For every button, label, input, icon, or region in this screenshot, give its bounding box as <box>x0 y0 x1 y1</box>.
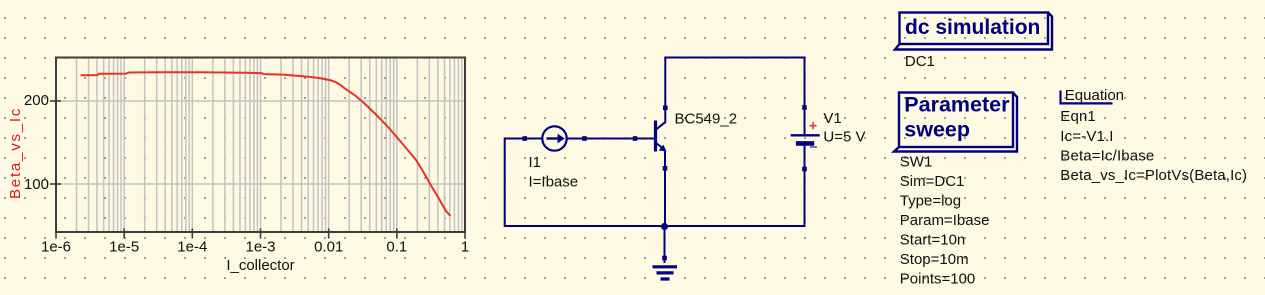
y axis tick 100 <box>50 183 61 185</box>
minus sign V1 <box>810 146 817 148</box>
svg-text:Points=100: Points=100 <box>900 271 975 288</box>
svg-text:100: 100 <box>24 176 49 193</box>
svg-text:Ic=-V1.I: Ic=-V1.I <box>1060 128 1113 145</box>
svg-text:BC549_2: BC549_2 <box>675 111 738 128</box>
diagram grid horizontal line 200 <box>57 100 464 102</box>
svg-text:I=Ibase: I=Ibase <box>529 174 579 191</box>
svg-text:Equation: Equation <box>1065 87 1124 104</box>
parameter sweep box <box>894 93 1017 152</box>
svg-text:Beta=Ic/Ibase: Beta=Ic/Ibase <box>1060 148 1154 165</box>
svg-text:U=5 V: U=5 V <box>823 129 865 146</box>
svg-text:Beta_vs_Ic: Beta_vs_Ic <box>7 107 24 199</box>
diagram frame <box>56 58 465 233</box>
node square I1 right pin <box>582 136 587 141</box>
svg-text:sweep: sweep <box>904 117 970 141</box>
svg-text:Eqn1: Eqn1 <box>1060 108 1096 125</box>
wire collector vertical <box>664 57 666 123</box>
y axis tick 200 <box>50 100 61 102</box>
node square collector <box>663 106 668 111</box>
node square base wire end <box>633 136 638 141</box>
svg-text:Param=Ibase: Param=Ibase <box>900 212 990 229</box>
wire emitter vertical <box>664 152 666 227</box>
svg-text:Start=10n: Start=10n <box>900 232 965 249</box>
wire V1 top vertical <box>804 57 806 135</box>
node square V1 bottom <box>802 167 807 172</box>
svg-text:0.01: 0.01 <box>314 239 343 256</box>
svg-text:1: 1 <box>461 239 469 256</box>
wire ground stem <box>664 226 666 263</box>
svg-text:V1: V1 <box>823 110 841 127</box>
wire bottom horizontal <box>505 225 805 227</box>
wire base horizontal <box>505 138 654 140</box>
node square emitter <box>663 166 668 171</box>
junction dot emitter/bottom wire <box>661 223 668 230</box>
node square ground <box>662 256 667 261</box>
wire left vertical <box>504 138 506 228</box>
svg-text:I_collector: I_collector <box>226 257 294 274</box>
current source I1 <box>542 126 566 150</box>
svg-text:1e-6: 1e-6 <box>41 239 71 256</box>
svg-text:0.1: 0.1 <box>386 239 407 256</box>
svg-text:I1: I1 <box>529 154 542 171</box>
node square I1 left pin <box>522 136 527 141</box>
svg-text:Type=log: Type=log <box>900 193 961 210</box>
transistor Q1 BC549_2 <box>656 121 667 152</box>
svg-text:1e-5: 1e-5 <box>109 239 139 256</box>
plus sign V1 <box>810 122 817 129</box>
svg-text:200: 200 <box>24 92 49 109</box>
node square V1 top <box>802 105 807 110</box>
curve Beta_vs_Ic <box>81 72 451 216</box>
svg-text:1e-4: 1e-4 <box>177 239 207 256</box>
dc simulation box <box>895 13 1052 50</box>
equation symbol underline <box>1060 102 1113 104</box>
svg-text:Parameter: Parameter <box>904 93 1010 117</box>
svg-text:1e-3: 1e-3 <box>245 239 275 256</box>
voltage source V1 battery <box>791 135 820 143</box>
x axis labels <box>41 239 469 256</box>
diagram grid horizontal line 100 <box>57 183 464 185</box>
wire top horizontal <box>665 57 804 59</box>
wire V1 bottom vertical <box>804 144 806 228</box>
svg-text:dc simulation: dc simulation <box>905 16 1040 39</box>
svg-text:Stop=10m: Stop=10m <box>900 251 969 268</box>
equation symbol bar <box>1059 91 1061 105</box>
svg-text:SW1: SW1 <box>900 154 933 171</box>
x axis ticks <box>56 229 465 239</box>
ground <box>653 267 678 279</box>
svg-text:Sim=DC1: Sim=DC1 <box>900 173 965 190</box>
svg-text:Beta_vs_Ic=PlotVs(Beta,Ic): Beta_vs_Ic=PlotVs(Beta,Ic) <box>1060 167 1247 184</box>
svg-text:DC1: DC1 <box>905 53 935 70</box>
diagram grid vertical lines <box>77 58 462 231</box>
